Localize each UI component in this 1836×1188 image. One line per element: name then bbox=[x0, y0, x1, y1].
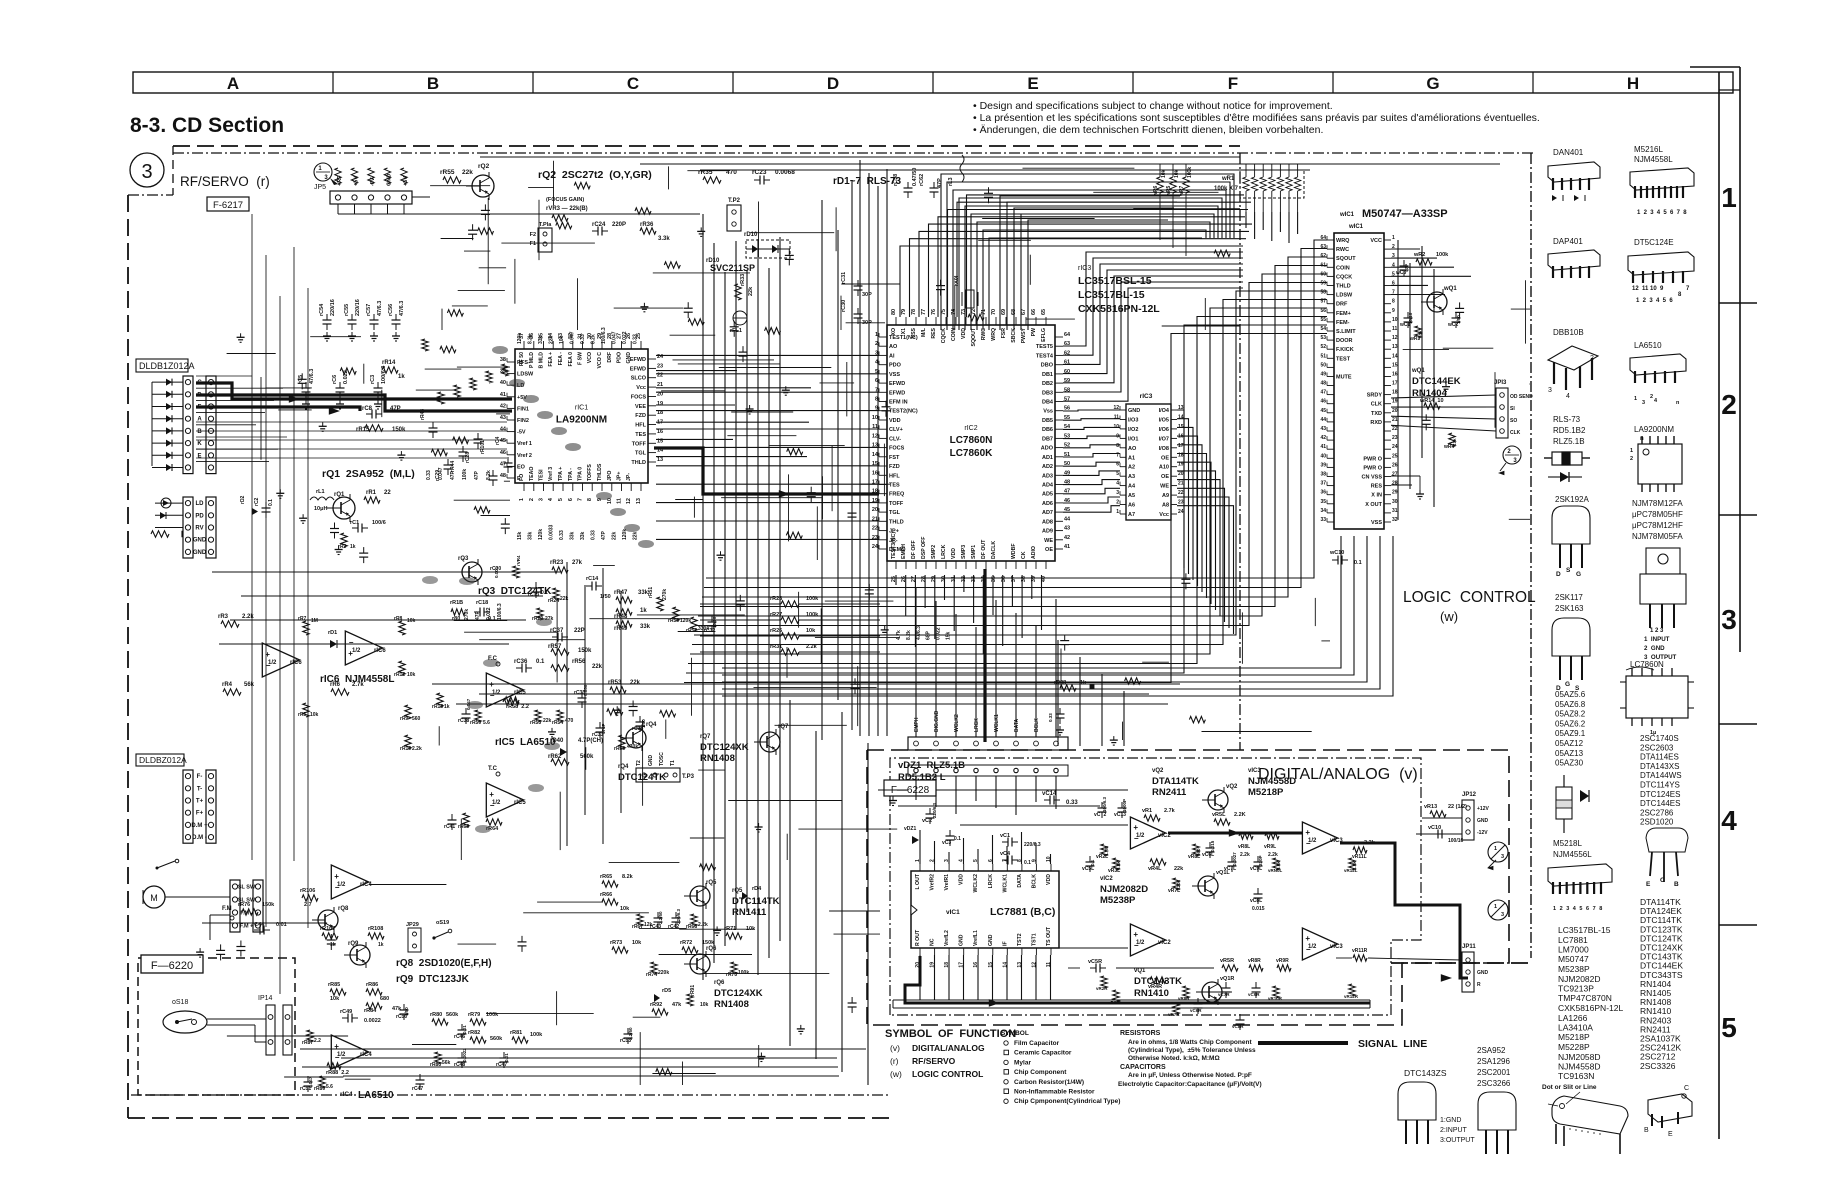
logic bottom dashed bbox=[1391, 962, 1531, 964]
svg-text:41: 41 bbox=[500, 392, 506, 398]
svg-text:I/O6: I/O6 bbox=[1159, 427, 1169, 433]
svg-text:Ceramic Capacitor: Ceramic Capacitor bbox=[1014, 1050, 1072, 1057]
svg-text:49: 49 bbox=[1320, 372, 1326, 378]
wire bbox=[457, 366, 510, 368]
svg-text:Electrolytic Capacitor:Capacit: Electrolytic Capacitor:Capacitance (μF)/… bbox=[1118, 1081, 1262, 1088]
svg-text:2: 2 bbox=[1560, 906, 1563, 912]
svg-text:JP+: JP+ bbox=[617, 472, 623, 481]
svg-text:JP-: JP- bbox=[626, 473, 632, 481]
svg-text:vC5R: vC5R bbox=[1088, 959, 1102, 965]
vQ2R wires bbox=[1208, 991, 1232, 993]
connector SL/FM bbox=[230, 880, 240, 932]
svg-text:CN VSS: CN VSS bbox=[1362, 475, 1383, 481]
svg-text:(r): (r) bbox=[890, 1056, 899, 1066]
svg-text:12: 12 bbox=[626, 498, 632, 504]
svg-text:SRDY: SRDY bbox=[1367, 393, 1383, 399]
vC8R bbox=[1236, 1019, 1245, 1021]
svg-text:SI: SI bbox=[1510, 406, 1515, 412]
svg-text:0.047: 0.047 bbox=[570, 331, 576, 344]
svg-text:TPA +: TPA + bbox=[558, 467, 564, 481]
vR2R bbox=[1101, 976, 1107, 988]
svg-text:vC3: vC3 bbox=[942, 840, 951, 846]
svg-text:LA1266: LA1266 bbox=[1558, 1013, 1588, 1023]
resistor fill12 bbox=[635, 208, 651, 214]
svg-text:560k: 560k bbox=[580, 754, 594, 760]
JP5 pin bbox=[335, 195, 340, 200]
svg-text:T-: T- bbox=[197, 786, 202, 792]
svg-text:A7: A7 bbox=[1128, 512, 1135, 518]
resistor fill203 bbox=[700, 864, 716, 870]
svg-text:FZD: FZD bbox=[635, 413, 646, 419]
svg-text:rIC3: rIC3 bbox=[1140, 393, 1153, 400]
wire bbox=[820, 382, 855, 384]
svg-text:10k: 10k bbox=[407, 618, 416, 624]
svg-text:rR73: rR73 bbox=[610, 940, 622, 946]
op-amp rIC6a bbox=[262, 643, 299, 677]
svg-text:31: 31 bbox=[1392, 508, 1398, 514]
svg-text:43: 43 bbox=[1320, 426, 1326, 432]
capacitor fill17 bbox=[785, 254, 794, 256]
svg-text:rR36: rR36 bbox=[640, 222, 654, 228]
wire bbox=[501, 242, 595, 244]
svg-text:F: F bbox=[1228, 74, 1238, 93]
wire bbox=[675, 499, 703, 501]
svg-text:A4: A4 bbox=[1128, 484, 1136, 490]
rR23 27k bbox=[552, 567, 568, 573]
rC33 470P bbox=[596, 727, 605, 729]
svg-text:X IN: X IN bbox=[1371, 493, 1382, 499]
wire bbox=[479, 267, 506, 269]
svg-text:+12V: +12V bbox=[1477, 806, 1489, 812]
header divider bbox=[332, 72, 334, 93]
svg-text:rR14: rR14 bbox=[382, 360, 396, 366]
svg-text:THLD: THLD bbox=[889, 519, 904, 525]
svg-text:22: 22 bbox=[872, 526, 878, 532]
svg-text:AD9: AD9 bbox=[1042, 529, 1053, 535]
rR67 12k bbox=[637, 914, 643, 926]
svg-text:22k: 22k bbox=[748, 286, 754, 296]
circled 1/3 ref bbox=[314, 163, 332, 181]
op-amp rIC5b bbox=[486, 783, 523, 817]
symbol item glyph bbox=[1004, 1070, 1009, 1075]
ground bbox=[643, 303, 645, 307]
capacitor fill127 bbox=[848, 512, 857, 514]
svg-text:rC62: rC62 bbox=[919, 174, 925, 186]
rR71 10k bbox=[726, 933, 742, 939]
svg-text:TES: TES bbox=[635, 432, 646, 438]
wire bbox=[653, 272, 750, 274]
rR59 5.6 bbox=[475, 710, 481, 722]
rR72 150k bbox=[682, 947, 698, 953]
rC58 cap bbox=[904, 187, 913, 189]
svg-text:vC4: vC4 bbox=[1000, 851, 1011, 857]
resistor rR31 bbox=[781, 649, 799, 655]
wire bbox=[1529, 383, 1532, 385]
rIC3 left pins bbox=[1120, 409, 1126, 411]
svg-text:rR56: rR56 bbox=[572, 659, 586, 665]
rC35 cap bbox=[578, 697, 587, 699]
ground bbox=[892, 797, 894, 801]
wire bbox=[637, 614, 745, 616]
svg-text:CXK5816PN-12L: CXK5816PN-12L bbox=[1078, 303, 1160, 315]
svg-text:M5228P: M5228P bbox=[1558, 1042, 1590, 1052]
svg-text:A3: A3 bbox=[1128, 474, 1135, 480]
section border bottom heavy dash bbox=[128, 1117, 893, 1119]
svg-text:3: 3 bbox=[1501, 854, 1504, 860]
rR98 1k bbox=[1060, 685, 1076, 691]
svg-text:8.2k: 8.2k bbox=[528, 334, 534, 344]
wire bbox=[454, 499, 510, 501]
svg-text:GND: GND bbox=[1477, 970, 1489, 976]
svg-text:41: 41 bbox=[1320, 444, 1326, 450]
svg-text:rC13: rC13 bbox=[528, 592, 539, 598]
svg-text:rR4: rR4 bbox=[222, 682, 233, 688]
svg-text:LC7881 (B,C): LC7881 (B,C) bbox=[990, 906, 1055, 918]
resistor fill160 bbox=[1214, 250, 1230, 256]
svg-text:0.1: 0.1 bbox=[1354, 560, 1362, 566]
svg-text:56k: 56k bbox=[244, 682, 255, 688]
section border corner step bbox=[172, 146, 174, 195]
svg-text:F+: F+ bbox=[196, 811, 204, 817]
JP5 pin bbox=[368, 195, 373, 200]
svg-text:4.7M: 4.7M bbox=[1104, 846, 1109, 856]
svg-text:A: A bbox=[227, 74, 239, 93]
da conn pin bbox=[954, 741, 959, 746]
svg-text:0.1: 0.1 bbox=[536, 659, 545, 665]
svg-text:vC2: vC2 bbox=[922, 818, 932, 824]
svg-text:AO: AO bbox=[889, 344, 898, 350]
wire bbox=[363, 364, 365, 384]
right outer border bbox=[1739, 67, 1741, 652]
svg-text:1/2: 1/2 bbox=[268, 660, 277, 666]
svg-text:vQ1: vQ1 bbox=[1134, 968, 1146, 974]
TC point bbox=[496, 772, 500, 776]
svg-text:11: 11 bbox=[1392, 326, 1398, 332]
svg-text:COIN: COIN bbox=[951, 328, 957, 341]
resistor fill132 bbox=[765, 328, 781, 334]
wire bbox=[589, 618, 688, 620]
svg-text:LRCK: LRCK bbox=[974, 718, 980, 732]
LC7860N bottom pins bbox=[895, 561, 897, 569]
svg-text:PWR O: PWR O bbox=[1363, 465, 1382, 471]
svg-text:1/2: 1/2 bbox=[337, 1052, 346, 1058]
svg-text:wR2: wR2 bbox=[1413, 252, 1425, 258]
wire bbox=[703, 973, 830, 975]
svg-text:05AZ6.8: 05AZ6.8 bbox=[1555, 700, 1586, 709]
transistor rQ5 bbox=[690, 886, 710, 906]
svg-text:FEA 0: FEA 0 bbox=[568, 352, 574, 367]
vR11R bbox=[1353, 955, 1367, 961]
svg-text:27: 27 bbox=[1392, 472, 1398, 478]
svg-text:2.2/50: 2.2/50 bbox=[628, 1027, 633, 1040]
wire bbox=[829, 910, 880, 912]
svg-text:rR86: rR86 bbox=[366, 982, 378, 988]
svg-text:vC10: vC10 bbox=[1428, 825, 1441, 831]
svg-text:12 11 10 9: 12 11 10 9 bbox=[1632, 286, 1664, 292]
svg-text:vR5L: vR5L bbox=[1212, 812, 1226, 818]
svg-text:TESI: TESI bbox=[539, 469, 545, 481]
row tick 2-3 bbox=[1719, 514, 1757, 516]
svg-text:2.2/50: 2.2/50 bbox=[658, 911, 663, 924]
svg-text:LC7881: LC7881 bbox=[1558, 935, 1588, 945]
svg-text:-5V: -5V bbox=[517, 430, 526, 436]
resistor rR27 bbox=[781, 617, 799, 623]
svg-text:71: 71 bbox=[981, 309, 987, 315]
svg-text:VDD: VDD bbox=[1046, 874, 1052, 885]
svg-text:+5V: +5V bbox=[403, 176, 409, 186]
svg-text:TC9213P: TC9213P bbox=[1558, 984, 1594, 994]
svg-text:FOCS: FOCS bbox=[631, 395, 647, 401]
svg-text:G: G bbox=[1565, 681, 1570, 688]
wire bbox=[758, 202, 760, 258]
svg-text:VCC: VCC bbox=[1370, 238, 1382, 244]
wC10 cap bbox=[1337, 556, 1339, 565]
svg-text:rR59: rR59 bbox=[470, 720, 481, 726]
da conn pin bbox=[1014, 741, 1019, 746]
wire bbox=[1314, 598, 1316, 626]
rR14 res bbox=[382, 367, 398, 373]
svg-text:0.0027: 0.0027 bbox=[1232, 852, 1237, 866]
svg-text:GND: GND bbox=[988, 934, 994, 946]
svg-text:220P: 220P bbox=[612, 222, 626, 228]
ground bbox=[616, 706, 618, 710]
svg-text:TOSC: TOSC bbox=[659, 752, 665, 766]
wC3 47P bbox=[1400, 265, 1409, 267]
rC50 cap bbox=[400, 1009, 409, 1011]
rC34 cap bbox=[636, 721, 645, 723]
JP5 riser res bbox=[335, 168, 341, 184]
da conn lower strip bbox=[908, 765, 1068, 776]
svg-text:DF OUT: DF OUT bbox=[981, 539, 987, 559]
svg-text:rQ2 2SC27t2 (O,Y,GR): rQ2 2SC27t2 (O,Y,GR) bbox=[538, 169, 652, 181]
svg-text:vR13: vR13 bbox=[1424, 804, 1437, 810]
svg-text:220k: 220k bbox=[658, 970, 669, 976]
svg-text:NJM2082D: NJM2082D bbox=[1558, 974, 1601, 984]
svg-text:1: 1 bbox=[1392, 235, 1395, 241]
rR2 res bbox=[341, 533, 347, 547]
rR6 2.7k bbox=[331, 689, 349, 695]
resistor fill1 bbox=[574, 182, 590, 188]
wire bbox=[284, 1076, 343, 1078]
svg-text:Vcc: Vcc bbox=[636, 385, 646, 391]
bus down links bbox=[1057, 640, 1059, 746]
svg-text:68P: 68P bbox=[926, 630, 932, 640]
rC42 cap bbox=[672, 917, 681, 919]
svg-text:47: 47 bbox=[1320, 390, 1326, 396]
wire bbox=[412, 1044, 456, 1046]
svg-text:1/50: 1/50 bbox=[600, 594, 611, 600]
svg-text:rC38: rC38 bbox=[458, 718, 469, 724]
svg-text:vR10R: vR10R bbox=[1268, 996, 1283, 1001]
da conn pin bbox=[934, 741, 939, 746]
bus LC7860 right upper bbox=[1063, 252, 1243, 346]
svg-text:18: 18 bbox=[1392, 390, 1398, 396]
svg-text:28: 28 bbox=[921, 576, 927, 582]
rD10 box bbox=[746, 240, 790, 258]
rR89 5.6 bbox=[319, 1076, 325, 1088]
svg-text:150k: 150k bbox=[392, 427, 406, 433]
ground bbox=[1445, 383, 1447, 387]
svg-text:WCLK2: WCLK2 bbox=[954, 714, 960, 732]
svg-text:64: 64 bbox=[1064, 332, 1071, 338]
resistor fill22 bbox=[556, 222, 572, 228]
la9200 left caps bbox=[429, 427, 438, 429]
svg-text:rR80: rR80 bbox=[430, 1012, 442, 1018]
top wire jp5 to right bbox=[412, 196, 430, 198]
svg-text:DTC124ES: DTC124ES bbox=[1640, 790, 1680, 799]
rR49 33k bbox=[616, 621, 632, 627]
right inner border bbox=[1718, 72, 1720, 1139]
rD4 diode bbox=[742, 892, 748, 900]
svg-text:R OUT: R OUT bbox=[915, 929, 921, 946]
capacitor fill210 bbox=[216, 949, 225, 951]
ground bbox=[800, 1025, 802, 1029]
svg-text:rC41: rC41 bbox=[444, 824, 455, 830]
svg-text:OE: OE bbox=[1161, 455, 1169, 461]
svg-text:rR75: rR75 bbox=[726, 972, 737, 978]
wire bbox=[786, 834, 788, 860]
rR106 2.7 bbox=[302, 895, 318, 901]
wire bbox=[486, 1013, 594, 1015]
svg-text:RESISTORS: RESISTORS bbox=[1120, 1030, 1161, 1037]
ground bbox=[199, 948, 201, 952]
wire bbox=[1443, 347, 1494, 349]
svg-text:47k: 47k bbox=[392, 1006, 402, 1012]
LC7860N left pins bbox=[879, 336, 887, 338]
wire bbox=[693, 497, 695, 518]
svg-text:F-6217: F-6217 bbox=[213, 200, 243, 211]
svg-text:+: + bbox=[489, 790, 494, 799]
svg-text:rQ2: rQ2 bbox=[478, 163, 490, 170]
svg-text:M5238P: M5238P bbox=[1558, 964, 1590, 974]
rD1 diode bbox=[330, 640, 337, 648]
svg-text:T+: T+ bbox=[196, 799, 204, 805]
svg-text:wIC1: wIC1 bbox=[1339, 212, 1355, 218]
svg-text:rR51: rR51 bbox=[648, 587, 654, 598]
top long wire bbox=[640, 163, 1500, 165]
svg-text:1/50: 1/50 bbox=[1456, 315, 1461, 324]
svg-text:rR1B: rR1B bbox=[450, 600, 463, 606]
svg-text:8: 8 bbox=[1116, 443, 1119, 449]
svg-text:M5238P: M5238P bbox=[1100, 895, 1136, 906]
wire bbox=[846, 362, 848, 416]
LC7860N right pins bbox=[1055, 336, 1063, 338]
svg-text:(w): (w) bbox=[1440, 609, 1458, 624]
extra long verticals bbox=[821, 200, 823, 740]
svg-text:rC4: rC4 bbox=[495, 436, 501, 445]
resistor fill15 bbox=[478, 228, 494, 234]
svg-text:39: 39 bbox=[1320, 462, 1326, 468]
svg-text:DTC144ES: DTC144ES bbox=[1640, 799, 1680, 808]
wire bbox=[639, 927, 687, 929]
svg-text:JPO: JPO bbox=[607, 471, 613, 481]
rR108 res bbox=[368, 933, 384, 939]
svg-text:2: 2 bbox=[529, 498, 535, 501]
bus down links left bbox=[789, 700, 791, 1046]
svg-text:2 GND: 2 GND bbox=[1644, 645, 1665, 652]
svg-text:vR11L: vR11L bbox=[1352, 854, 1367, 860]
photo diode bbox=[152, 442, 183, 444]
resistor rR28 bbox=[781, 601, 799, 607]
svg-text:IF: IF bbox=[1002, 941, 1008, 946]
wire bbox=[458, 290, 505, 292]
svg-text:6: 6 bbox=[568, 498, 574, 501]
wire bbox=[556, 599, 558, 683]
svg-text:13: 13 bbox=[636, 498, 642, 504]
svg-text:LC7860K: LC7860K bbox=[950, 448, 994, 459]
svg-text:oS18: oS18 bbox=[172, 999, 188, 1006]
svg-text:rR82: rR82 bbox=[468, 1030, 480, 1036]
da conn pin bbox=[914, 741, 919, 746]
svg-text:10k: 10k bbox=[806, 628, 816, 634]
rR79 100k bbox=[470, 1019, 486, 1025]
svg-text:F.M: F.M bbox=[222, 906, 232, 912]
bus fan LC7860 top bbox=[900, 246, 1243, 317]
capacitor rC6 bbox=[336, 387, 345, 389]
svg-text:M5218P: M5218P bbox=[1248, 787, 1284, 798]
svg-text:LRCK: LRCK bbox=[941, 544, 947, 559]
wire bbox=[416, 389, 454, 391]
wR1 resistor bbox=[1269, 177, 1275, 191]
wire bbox=[642, 720, 644, 806]
rC51 cap bbox=[304, 1081, 313, 1083]
bus M50747 fan bbox=[694, 291, 1327, 635]
svg-text:Otherwise Noted. k:kΩ, M:MΩ: Otherwise Noted. k:kΩ, M:MΩ bbox=[1128, 1055, 1220, 1062]
resistor fill55 bbox=[453, 437, 469, 443]
rR82 560k bbox=[470, 1037, 486, 1043]
wR2 100k bbox=[1416, 259, 1432, 265]
resistor fill153 bbox=[968, 314, 984, 320]
pkg RLS-73 diode bbox=[1552, 452, 1582, 465]
res left bbox=[151, 531, 169, 537]
svg-text:rIC4: rIC4 bbox=[340, 1091, 353, 1098]
capacitor fill166 bbox=[984, 192, 993, 194]
symbol item glyph bbox=[1004, 1089, 1009, 1094]
svg-text:vC6R: vC6R bbox=[1190, 1008, 1202, 1013]
transistor rQ7 bbox=[760, 732, 780, 752]
bus M50747 fan bbox=[688, 317, 1327, 664]
rR75 100k bbox=[731, 962, 737, 974]
rR51 270k bbox=[657, 597, 663, 611]
pkg LA6510 bbox=[1630, 354, 1686, 375]
ground bbox=[302, 514, 304, 518]
IP14 connector bbox=[266, 1005, 275, 1055]
transistor vQ2 bbox=[1208, 790, 1228, 810]
svg-text:47/6.3: 47/6.3 bbox=[377, 301, 383, 316]
rC13 0.1 bbox=[532, 587, 541, 589]
svg-text:47/6.3: 47/6.3 bbox=[309, 369, 315, 384]
wire bbox=[1509, 518, 1530, 520]
svg-text:43: 43 bbox=[1064, 526, 1070, 532]
JP5 pin bbox=[352, 195, 357, 200]
svg-text:DACLK: DACLK bbox=[991, 541, 997, 559]
svg-text:26: 26 bbox=[1392, 462, 1398, 468]
svg-text:vR9L: vR9L bbox=[1264, 844, 1276, 850]
svg-text:27: 27 bbox=[911, 576, 917, 582]
rFL1 sym bbox=[733, 311, 747, 325]
svg-text:3.3k: 3.3k bbox=[658, 236, 670, 242]
transistor rQ4 bbox=[626, 728, 646, 748]
svg-text:vR8L: vR8L bbox=[1238, 844, 1250, 850]
svg-text:M5218L: M5218L bbox=[1553, 839, 1582, 848]
JP29 conn bbox=[408, 928, 421, 952]
da connector drops bbox=[915, 588, 917, 737]
svg-text:EFLG: EFLG bbox=[1041, 328, 1047, 342]
M50747 right pins bbox=[1384, 239, 1391, 241]
svg-text:D.M +: D.M + bbox=[191, 823, 208, 829]
photo diode bbox=[152, 430, 183, 432]
wire bbox=[831, 446, 833, 512]
